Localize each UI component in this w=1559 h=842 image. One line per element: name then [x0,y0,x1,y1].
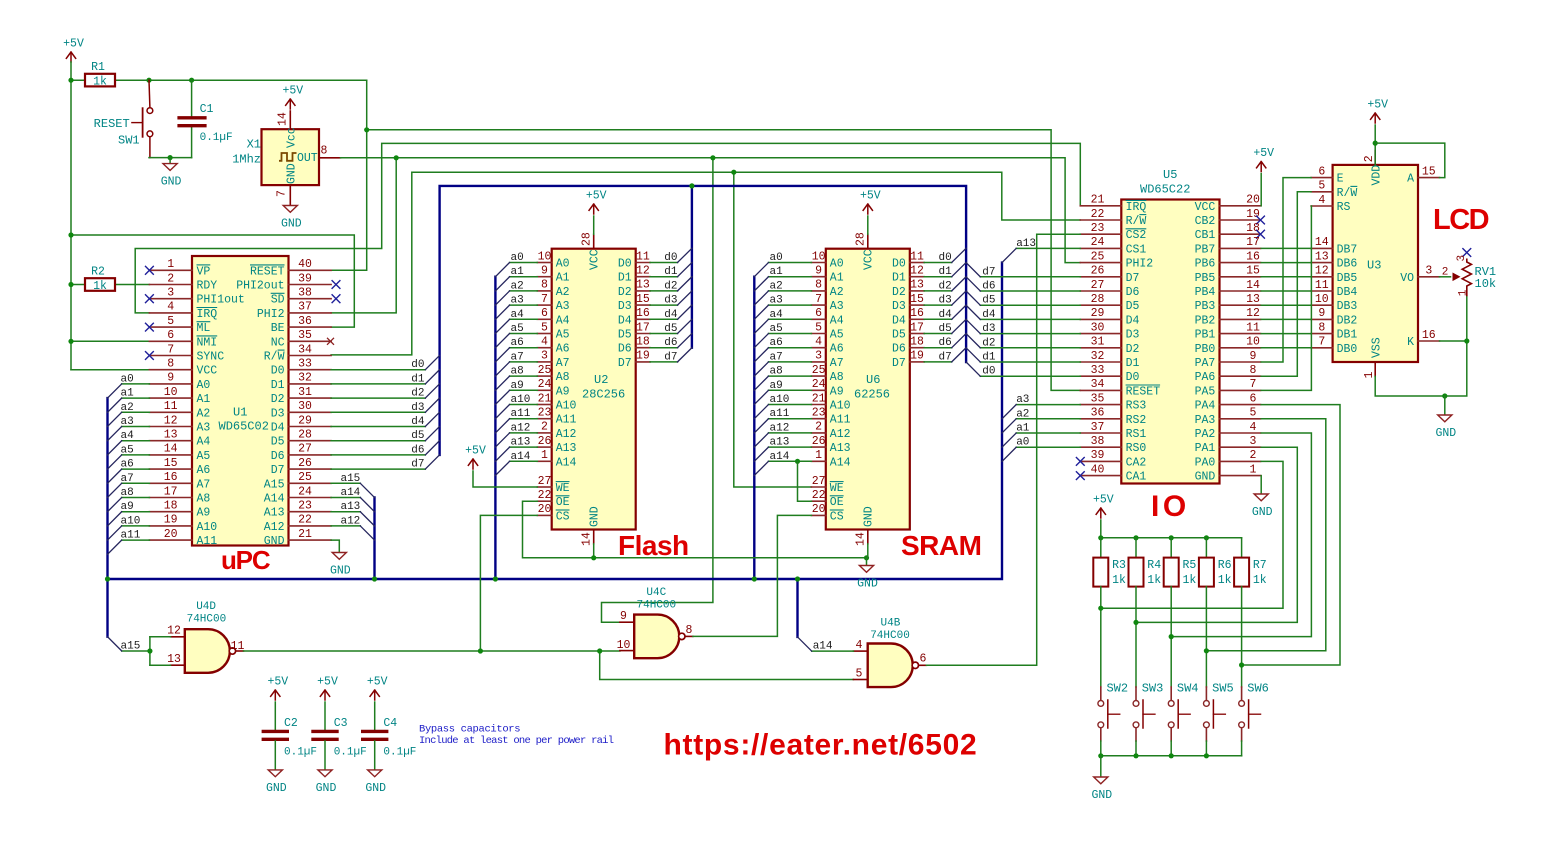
wire a1 to U1 [122,397,150,399]
U2 pin 12 D1 [636,276,650,278]
U1 pin 30 D3 [289,411,332,413]
ground (C2) [268,770,282,777]
svg-text:0.1µF: 0.1µF [383,747,416,759]
RV1 pin 3 (no connect) [1462,248,1471,257]
svg-text:D3: D3 [271,407,285,420]
svg-text:23: 23 [538,407,552,420]
U2 pin 6 A4 [537,318,551,320]
svg-text:A12: A12 [830,428,851,441]
bus entry a13 [1002,248,1016,262]
wire a4 to U2 [510,318,538,320]
svg-text:A4: A4 [197,436,211,449]
bus entry a11 [754,419,768,433]
wire a14 from U1 [331,497,360,499]
svg-text:WE: WE [556,482,570,495]
bus entry a0 [108,384,122,398]
svg-text:4: 4 [1318,194,1325,207]
svg-text:R1: R1 [91,61,105,74]
svg-text:27: 27 [538,475,552,488]
svg-text:14: 14 [855,532,868,546]
svg-text:18: 18 [1246,222,1260,235]
svg-text:+5V: +5V [860,190,881,203]
wire U6 GND to ground rail [867,544,869,558]
U2 pin 21 A10 [537,404,551,406]
U1 pin 31 D2 [289,397,332,399]
svg-text:a5: a5 [121,444,134,456]
svg-text:8: 8 [1250,364,1257,377]
wire a10 to U1 [122,525,150,527]
svg-text:29: 29 [298,414,312,427]
U5 pin 18 CB1 [1220,233,1261,235]
wire d2 from U1 [331,397,425,399]
IC U3 LCD module [1333,165,1418,362]
svg-text:A4: A4 [830,314,844,327]
bus entry d2 [678,277,692,291]
bus entry a0 [1002,447,1016,461]
svg-text:A11: A11 [556,414,577,427]
ground (U1) [332,553,346,560]
svg-text:U4C: U4C [646,587,666,599]
svg-text:A6: A6 [556,343,570,356]
switch SW6 [1241,687,1243,700]
svg-text:74HC00: 74HC00 [187,614,227,626]
U5 pin 21 IRQ [1080,205,1121,207]
U5 pin 33 D0 [1080,375,1121,377]
wire a14 to U6 [769,460,812,462]
svg-text:a1: a1 [121,388,135,400]
IC U2 28C256 EEPROM [552,249,636,530]
address bus branch sram [753,277,755,579]
svg-text:a9: a9 [121,501,134,513]
svg-text:a3: a3 [511,295,524,307]
svg-text:5: 5 [815,321,822,334]
svg-text:7: 7 [276,190,289,197]
U1 pin 16 A7 [149,482,192,484]
svg-text:A13: A13 [830,442,851,455]
svg-text:d1: d1 [411,373,425,385]
svg-text:4: 4 [856,639,863,652]
svg-text:d5: d5 [938,323,951,335]
svg-text:DB1: DB1 [1337,329,1358,342]
svg-text:13: 13 [1315,250,1329,263]
svg-text:GND: GND [286,163,299,184]
U2 pin 5 A5 [537,333,551,335]
power +5V (flash WE) [472,459,474,469]
svg-text:a6: a6 [511,337,524,349]
svg-text:10: 10 [812,250,826,263]
wire a6 to U1 [122,468,150,470]
svg-text:a3: a3 [770,295,783,307]
svg-text:C2: C2 [284,717,298,730]
wire a15 from U1 [331,482,360,484]
U2 pin 16 D4 [636,318,650,320]
wire NMI tied to +5V rail [71,340,149,342]
svg-text:3: 3 [1425,265,1432,278]
svg-text:1: 1 [167,258,174,271]
wire U1 GND to ground symbol [331,540,339,552]
svg-text:CS2: CS2 [1126,229,1147,242]
svg-text:1: 1 [1363,372,1376,379]
svg-text:A6: A6 [830,343,844,356]
junction [1204,535,1209,540]
svg-text:PB3: PB3 [1195,300,1216,313]
wire d4 from U6 [924,318,952,320]
svg-text:24: 24 [298,485,312,498]
wire U5 PA1 to SW3/R4 [1136,447,1297,622]
svg-text:A7: A7 [197,478,211,491]
U5 pin 12 PB2 [1220,318,1261,320]
U3 pin 16 K [1418,340,1440,342]
wire U4C output to SRAM CS [693,515,812,636]
bus entry a10 [754,405,768,419]
svg-text:A8: A8 [556,371,570,384]
U1 pin 19 A10 [149,525,192,527]
svg-text:d4: d4 [664,309,678,321]
svg-text:0.1µF: 0.1µF [284,747,317,759]
U5 pin 3 PA1 [1220,446,1261,448]
svg-text:D5: D5 [1126,300,1140,313]
wire a14 to SRAM OE [798,461,812,501]
svg-text:LCD: LCD [1433,204,1489,236]
U1 pin 32 D1 [289,383,332,385]
U3 pin 12 DB5 [1311,276,1333,278]
U3 pin 7 DB0 [1311,347,1333,349]
U2 pin 28 VCC [593,234,595,248]
svg-text:9: 9 [1250,350,1257,363]
wire d4 from U2 [650,318,677,320]
svg-text:RESET: RESET [250,265,285,278]
wire a5 to U6 [769,333,812,335]
U1 pin 39 PHI2out [289,284,332,286]
switch SW2 [1100,687,1102,700]
svg-text:11: 11 [231,640,245,653]
U6 pin 28 VCC [867,234,869,248]
svg-text:1k: 1k [1112,574,1126,587]
wire d3 to U5 [980,333,1080,335]
svg-text:26: 26 [1091,265,1105,278]
bus entry d4 [425,412,439,426]
bus entry a13 [360,512,374,526]
svg-text:7: 7 [167,343,174,356]
ground (LCD) [1444,396,1446,415]
svg-text:R/W: R/W [264,351,285,364]
svg-text:26: 26 [538,435,552,448]
U3 pin 14 DB7 [1311,247,1333,249]
svg-text:D1: D1 [1126,357,1140,370]
U1 pin 29 D4 [289,426,332,428]
svg-text:22: 22 [298,514,312,527]
wire a11 to U6 [769,418,812,420]
svg-text:SW5: SW5 [1212,682,1234,696]
svg-text:GND: GND [161,176,182,189]
U5 pin 14 PB4 [1220,290,1261,292]
U6 pin 14 GND [867,530,869,544]
svg-text:A0: A0 [556,258,570,271]
U1 pin 33 D0 [289,369,332,371]
wire d6 to U5 [980,290,1080,292]
switch SW5 [1205,687,1207,700]
U1 pin 13 A4 [149,440,192,442]
bus entry d0 [952,248,966,262]
U5 pin 34 RESET [1080,389,1121,391]
bus entry a7 [108,483,122,497]
bus entry a9 [108,512,122,526]
svg-text:9: 9 [1318,307,1325,320]
svg-text:SW2: SW2 [1106,682,1128,696]
svg-text:d7: d7 [982,266,995,278]
wire d7 to U5 [980,276,1080,278]
wire BE tied to +5V rail [71,235,354,327]
svg-text:PA7: PA7 [1195,357,1216,370]
bus entry d3 [425,398,439,412]
svg-text:D3: D3 [618,300,632,313]
svg-text:PHI2: PHI2 [1126,258,1154,271]
svg-text:74HC00: 74HC00 [637,600,677,612]
svg-text:D6: D6 [618,343,632,356]
svg-text:U4B: U4B [881,618,901,630]
U2 pin 9 A1 [537,276,551,278]
svg-text:R7: R7 [1253,559,1267,572]
U5 pin 32 D1 [1080,361,1121,363]
power +5V (above U6) [867,204,869,214]
resistor R5 1k [1170,538,1172,558]
svg-text:Flash: Flash [618,530,689,561]
bus entry a8 [495,376,509,390]
svg-text:a1: a1 [511,266,525,278]
U6 pin 22 OE [811,500,825,502]
wire d0 to U5 [980,375,1080,377]
bus entry a11 [495,419,509,433]
wire a11 to U2 [510,418,538,420]
bus entry d1 [966,348,980,362]
svg-text:15: 15 [1246,265,1260,278]
U5 pin 31 D2 [1080,347,1121,349]
nand gate U4D 74HC00 [185,629,230,673]
U5 pin 36 RS2 [1080,418,1121,420]
resistor R2 1k (RDY pullup) [71,284,85,286]
junction [147,648,152,653]
U3 pin 11 DB4 [1311,290,1333,292]
bus entry d1 [952,263,966,277]
IC U5 WD65C22 VIA [1121,200,1219,484]
junction [1098,535,1103,540]
svg-text:a8: a8 [511,366,524,378]
svg-text:6: 6 [541,307,548,320]
svg-text:PA2: PA2 [1195,428,1216,441]
U5 pin 38 RS0 [1080,446,1121,448]
svg-text:4: 4 [541,336,548,349]
wire LCD VSS / K / RV1 to GND [1375,296,1467,396]
svg-text:D0: D0 [271,365,285,378]
svg-text:20: 20 [1246,194,1260,207]
bus entry d5 [425,427,439,441]
svg-text:a12: a12 [770,422,790,434]
wire d5 from U6 [924,333,952,335]
svg-text:GND: GND [281,218,302,231]
U6 pin 26 A13 [811,446,825,448]
svg-text:DB5: DB5 [1337,272,1358,285]
bus entry a8 [754,376,768,390]
svg-text:17: 17 [910,321,924,334]
bus entry a14 [754,461,768,475]
svg-text:4: 4 [815,336,822,349]
svg-text:GND: GND [330,565,351,578]
U5 pin 6 PA4 [1220,404,1261,406]
svg-text:5: 5 [1250,407,1257,420]
svg-text:A12: A12 [264,521,285,534]
svg-text:21: 21 [812,392,826,405]
bus entry d2 [952,277,966,291]
U5 pin 5 PA3 [1220,418,1261,420]
svg-text:DB7: DB7 [1337,243,1358,256]
wire LCD K to RV1 bottom [1440,340,1467,342]
svg-text:R5: R5 [1183,559,1197,572]
svg-text:E: E [1337,173,1344,186]
svg-text:CS: CS [830,510,844,523]
wire a5 to U2 [510,333,538,335]
U1 pin 27 D6 [289,454,332,456]
svg-text:+5V: +5V [1253,147,1274,160]
svg-text:X1: X1 [247,137,261,151]
U5 pin 15 PB5 [1220,276,1261,278]
svg-text:6: 6 [1250,392,1257,405]
svg-text:1: 1 [1250,463,1257,476]
bus entry d0 [678,248,692,262]
svg-text:3: 3 [1456,255,1468,262]
address bus branch flash [494,277,496,579]
svg-text:GND: GND [1195,471,1216,484]
svg-text:A5: A5 [197,450,211,463]
svg-text:1k: 1k [1147,574,1161,587]
svg-text:R6: R6 [1218,559,1232,572]
svg-text:38: 38 [298,287,312,300]
svg-text:d6: d6 [411,444,424,456]
svg-text:+5V: +5V [282,85,303,98]
svg-text:A0: A0 [830,258,844,271]
wire a0 to U6 [769,262,812,264]
svg-text:A3: A3 [830,300,844,313]
wire a2 to U1 [122,411,150,413]
wire switch ground rail [1101,755,1242,757]
svg-text:a15: a15 [121,641,141,653]
svg-text:11: 11 [910,250,924,263]
svg-text:A8: A8 [197,493,211,506]
wire U5 PB7 to LCD DB7 [1261,247,1311,249]
junction [1169,535,1174,540]
svg-text:21: 21 [298,528,312,541]
svg-text:GND: GND [365,782,386,795]
svg-text:d0: d0 [664,252,677,264]
svg-text:OUT: OUT [297,152,318,165]
svg-text:a13: a13 [770,437,790,449]
svg-text:d0: d0 [982,366,995,378]
svg-text:10: 10 [538,250,552,263]
junction [689,183,694,188]
bus entry a3 [495,305,509,319]
wire a1 to U6 [769,276,812,278]
wire d0 from U1 [331,369,425,371]
wire a1 to U5 RS1 [1016,432,1080,434]
bus entry d4 [966,305,980,319]
svg-text:NMI: NMI [197,336,218,349]
wire a4 to U1 [122,440,150,442]
svg-text:12: 12 [636,265,650,278]
svg-text:SYNC: SYNC [197,351,225,364]
svg-text:GND: GND [1252,506,1273,519]
svg-text:d0: d0 [411,359,424,371]
svg-text:PHI1out: PHI1out [197,294,245,307]
U3 pin 2 VDD [1374,151,1376,165]
junction [168,155,173,160]
svg-text:SD: SD [271,294,285,307]
bus entry a3 [1002,405,1016,419]
svg-text:SW4: SW4 [1177,682,1199,696]
X1 pin 7 GND [289,185,291,205]
U1 pin 5 ML [149,326,192,328]
U1 pin 6 NMI [149,340,192,342]
wire SW4 to ground rail [1170,728,1172,741]
wire a8 to U1 [122,497,150,499]
wire a7 to U1 [122,482,150,484]
junction [189,78,194,83]
U1 pin 3 PHI1out [149,298,192,300]
svg-text:D6: D6 [1126,286,1140,299]
svg-text:OE: OE [556,496,570,509]
svg-text:0.1µF: 0.1µF [334,747,367,759]
svg-text:+5V: +5V [1367,99,1388,112]
svg-text:62256: 62256 [854,388,890,402]
svg-text:a11: a11 [770,408,790,420]
bus entry a6 [108,469,122,483]
U5 pin 39 CA2 [1080,460,1121,462]
svg-text:25: 25 [812,364,826,377]
wire U4D output (/a15) to flash CS, U4C.10, U4B.5 [244,650,620,652]
U2 pin 24 A9 [537,389,551,391]
U3 pin 3 VO [1418,276,1440,278]
junction [1133,535,1138,540]
wire a9 to U6 [769,389,812,391]
svg-text:32: 32 [298,372,312,385]
junction [68,339,73,344]
wire U5 PA4 to SW6/R7 [1242,405,1340,665]
svg-text:VSS: VSS [1371,337,1384,358]
wire RESET net: R1 rail to U1 pin40 and U5 pin34 [331,80,367,270]
svg-text:1: 1 [1458,289,1470,296]
U1 pin 38 SD [289,298,332,300]
svg-text:2: 2 [1250,449,1257,462]
svg-text:WE: WE [830,482,844,495]
bus entry a7 [495,362,509,376]
junction (a14 to SRAM OE) [795,459,800,464]
svg-text:28C256: 28C256 [582,388,625,402]
U5 pin 23 CS2 [1080,233,1121,235]
address bus rail (navy) [106,398,108,637]
svg-text:24: 24 [538,378,552,391]
U3 pin 8 DB1 [1311,333,1333,335]
bus entry a15 [108,637,122,651]
svg-text:a9: a9 [770,380,783,392]
svg-text:10: 10 [164,386,178,399]
svg-text:34: 34 [298,343,312,356]
svg-text:VP: VP [197,265,211,278]
svg-text:24: 24 [812,378,826,391]
U5 pin 24 CS1 [1080,247,1121,249]
svg-text:a4: a4 [121,430,135,442]
svg-text:U3: U3 [1367,259,1381,273]
svg-text:A7: A7 [830,357,844,370]
junction [1169,634,1174,639]
svg-text:a3: a3 [1016,394,1029,406]
